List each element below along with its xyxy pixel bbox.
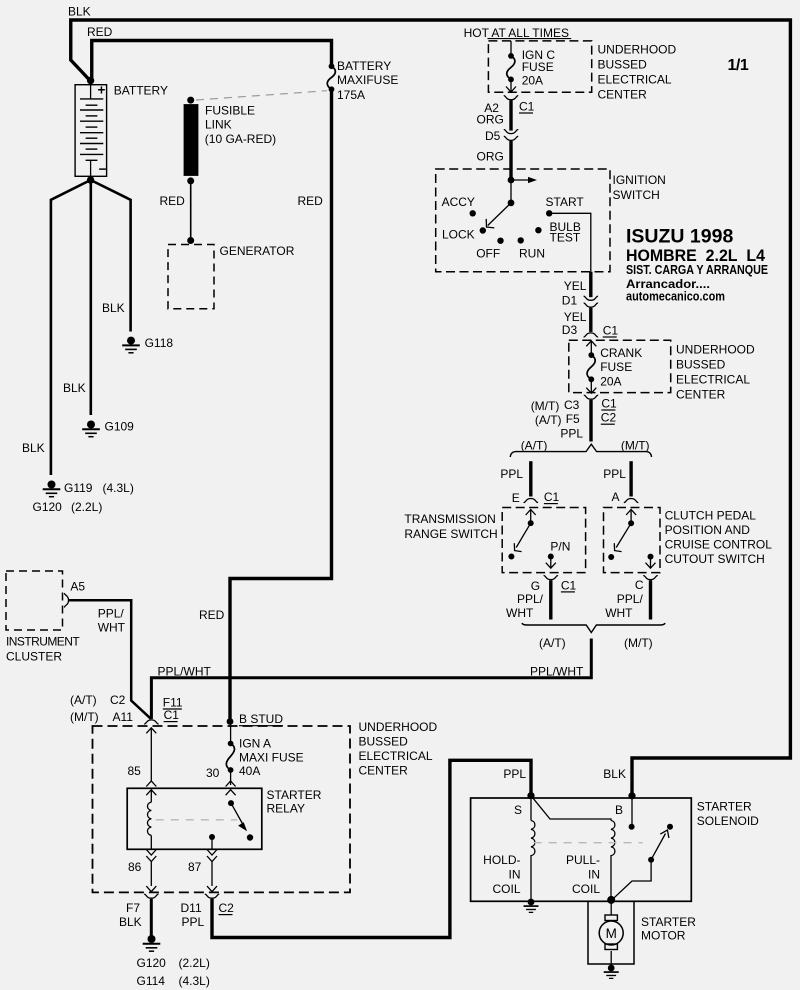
svg-text:175A: 175A (337, 88, 365, 102)
label IGN C FUSE 20A (522, 48, 556, 88)
svg-text:C: C (635, 578, 644, 592)
wire BLK battery negative to G119 (51, 180, 91, 475)
svg-text:OFF: OFF (476, 247, 500, 261)
label ORG (477, 150, 504, 164)
svg-text:PPL/: PPL/ (517, 592, 544, 606)
label CLUTCH PEDAL POSITION AND CRUISE CONTROL CUTOUT SWITCH (665, 509, 773, 567)
label G109 (105, 420, 135, 434)
svg-text:F5: F5 (566, 412, 580, 426)
label D11 PPL (181, 901, 205, 929)
node contact ACCY (470, 210, 476, 216)
wire ignition wiper arm toward LOCK (486, 203, 511, 228)
svg-text:BATTERY: BATTERY (114, 84, 168, 98)
svg-text:HOT AT ALL TIMES: HOT AT ALL TIMES (464, 26, 569, 40)
wire TRS feed with up arrow (526, 510, 536, 524)
label INSTRUMENT CLUSTER (6, 635, 80, 664)
wire BLK relay 86 to ground (150, 899, 153, 936)
label UNDERHOOD BUSSED ELECTRICAL CENTER (598, 43, 677, 102)
label PPL/ WHT (605, 592, 643, 620)
node B STUD (227, 718, 234, 725)
label C2 (219, 901, 235, 915)
svg-text:G: G (531, 579, 540, 593)
motor brush top (605, 915, 617, 921)
node contact LOCK (480, 227, 486, 233)
svg-text:TRANSMISSION: TRANSMISSION (404, 512, 495, 526)
label 87 (188, 860, 202, 874)
svg-text:YEL: YEL (564, 279, 587, 293)
svg-text:STARTER: STARTER (267, 788, 322, 802)
svg-text:85: 85 (128, 764, 142, 778)
label C1 (561, 578, 577, 592)
connector D5 (in-line) (504, 130, 518, 141)
svg-text:POSITION AND: POSITION AND (665, 523, 751, 537)
wire relay pin 85 feed with up arrow (146, 728, 156, 781)
label START (546, 195, 585, 209)
label TRANSMISSION RANGE SWITCH (404, 512, 497, 541)
wire solenoid switch arm (651, 830, 669, 860)
svg-text:STARTER: STARTER (641, 915, 696, 929)
svg-text:D11: D11 (181, 901, 202, 915)
node ignition switch wiper pivot (508, 200, 515, 207)
svg-text:RED: RED (160, 194, 186, 208)
label D1 (562, 294, 578, 308)
title automecanico.com (626, 290, 725, 304)
svg-text:COIL: COIL (492, 882, 520, 896)
svg-text:SIST. CARGA Y ARRANQUE: SIST. CARGA Y ARRANQUE (626, 262, 768, 277)
node battery positive terminal (87, 77, 94, 84)
label A2 (484, 101, 499, 115)
ground G109 (82, 421, 100, 437)
node clutch contact output (648, 554, 654, 560)
svg-text:PPL: PPL (603, 467, 626, 481)
svg-text:BLK: BLK (22, 441, 45, 455)
wire hold-in coil to ground (530, 860, 532, 900)
svg-text:START: START (546, 195, 585, 209)
svg-text:BLK: BLK (102, 301, 125, 315)
label (A/T) (521, 439, 548, 453)
svg-text:HOLD-: HOLD- (483, 853, 520, 867)
svg-text:MOTOR: MOTOR (641, 929, 686, 943)
svg-text:WHT: WHT (506, 606, 534, 620)
svg-text:RUN: RUN (519, 247, 545, 261)
svg-text:+: + (98, 83, 106, 98)
label 86 (128, 860, 142, 874)
node contact START (546, 210, 552, 216)
label BLK (68, 5, 91, 19)
svg-text:SWITCH: SWITCH (613, 188, 660, 202)
svg-text:GENERATOR: GENERATOR (220, 244, 295, 258)
label PPL (560, 427, 583, 441)
svg-text:LINK: LINK (205, 118, 232, 132)
svg-text:FUSE: FUSE (600, 360, 632, 374)
wire crank fuse lead top with arrow (586, 341, 596, 355)
label YEL (564, 310, 587, 324)
svg-text:ORG: ORG (477, 150, 504, 164)
label RED (160, 194, 186, 208)
svg-text:CUTOUT SWITCH: CUTOUT SWITCH (665, 552, 765, 566)
svg-text:(A/T): (A/T) (521, 439, 548, 453)
wire IGN C fuse lead top (510, 41, 512, 55)
label (M/T) C3 (531, 398, 580, 413)
ground G119 (43, 481, 61, 497)
node fusible link bottom (187, 177, 194, 184)
wire pull-in coil feed (531, 796, 611, 821)
svg-text:40A: 40A (239, 764, 260, 778)
label F11 (163, 696, 183, 710)
label RED (199, 608, 225, 622)
node solenoid terminal B (628, 792, 635, 799)
svg-text:(A/T): (A/T) (70, 693, 97, 707)
svg-text:C2: C2 (110, 693, 126, 707)
svg-text:MAXIFUSE: MAXIFUSE (337, 73, 398, 87)
clutch pedal position switch box (dashed) (604, 508, 661, 573)
svg-text:−: − (99, 161, 107, 176)
svg-text:(4.3L): (4.3L) (179, 974, 210, 988)
svg-text:BUSSED: BUSSED (598, 58, 648, 72)
label BLK (603, 767, 626, 781)
wire ORG D5 to ignition switch (509, 141, 512, 180)
wire BLK battery negative to G109 (90, 180, 93, 415)
svg-text:C1: C1 (164, 708, 180, 722)
starter solenoid box (471, 798, 692, 901)
wire B STUD to IGN A fuse (230, 722, 232, 744)
svg-text:F7: F7 (126, 901, 140, 915)
wire PPL crank fuse to split (589, 400, 592, 442)
svg-text:ACCY: ACCY (442, 195, 475, 209)
label PPL/WHT (158, 665, 212, 679)
label G120 (2.2L) (137, 956, 210, 970)
svg-text:G114: G114 (137, 974, 166, 988)
node battery negative terminal (87, 176, 94, 183)
wire PPL to clutch switch (629, 461, 632, 496)
label S (514, 803, 522, 817)
wire relay 87 exit arrows (207, 850, 217, 892)
svg-text:G120: G120 (33, 500, 63, 514)
label (A/T) F5 (535, 412, 580, 427)
label P/N (550, 540, 570, 554)
wire solenoid pivot to motor junction (613, 860, 652, 900)
svg-text:(M/T): (M/T) (531, 399, 560, 413)
fuse BATTERY MAXIFUSE 175A (327, 63, 335, 92)
generator GEN (dashed box) (168, 245, 214, 309)
wire motor to ground (610, 951, 612, 965)
svg-text:(4.3L): (4.3L) (103, 481, 134, 495)
wire hold-in coil feed (530, 796, 532, 821)
svg-text:20A: 20A (522, 74, 543, 88)
wire relay 86 exit arrows (146, 850, 156, 892)
svg-text:CENTER: CENTER (359, 764, 409, 778)
wire RED battery positive feed to maxifuse (92, 41, 332, 79)
label (A/T) (M/T) (70, 693, 99, 724)
label D3 (562, 323, 578, 337)
svg-text:M: M (606, 926, 617, 941)
svg-text:BLK: BLK (119, 915, 142, 929)
svg-text:UNDERHOOD: UNDERHOOD (359, 720, 438, 734)
label BATTERY MAXIFUSE 175A (337, 59, 398, 102)
svg-text:PPL: PPL (560, 427, 583, 441)
starter motor M (599, 921, 623, 945)
label C2 A11 (110, 693, 133, 724)
label STARTER MOTOR (641, 915, 696, 943)
label PPL (503, 767, 526, 781)
label STARTER RELAY (267, 788, 322, 816)
node TRS common (528, 520, 534, 526)
svg-text:PULL-: PULL- (566, 853, 600, 867)
title Arrancador.... (626, 277, 710, 291)
svg-text:MAXI FUSE: MAXI FUSE (239, 751, 304, 765)
svg-text:C1: C1 (544, 490, 560, 504)
svg-text:SOLENOID: SOLENOID (697, 814, 759, 828)
label C1 (519, 100, 535, 114)
svg-text:ELECTRICAL: ELECTRICAL (359, 749, 433, 763)
fusible link F1 (10 GA-RED) (184, 104, 199, 176)
svg-text:CLUSTER: CLUSTER (6, 650, 62, 664)
label UNDERHOOD BUSSED ELECTRICAL CENTER (676, 343, 755, 402)
solenoid hold-in coil (531, 821, 535, 860)
svg-text:30: 30 (206, 766, 220, 780)
svg-text:BLK: BLK (63, 381, 86, 395)
relay coil (147, 802, 151, 835)
svg-text:IN: IN (509, 868, 521, 882)
connector pin A5 (half) (65, 593, 69, 607)
wire crank fuse lead bottom with arrow (586, 379, 596, 393)
ground G118 (122, 337, 140, 353)
svg-text:(M/T): (M/T) (70, 710, 99, 724)
label STARTER SOLENOID (697, 800, 759, 829)
svg-text:COIL: COIL (572, 882, 600, 896)
wire pull-in coil to junction (610, 860, 612, 900)
svg-text:PPL: PPL (182, 915, 205, 929)
svg-text:BUSSED: BUSSED (359, 735, 409, 749)
svg-text:LOCK: LOCK (442, 228, 475, 242)
label ORG (477, 113, 504, 127)
connector F11 C1 (half, at UBEC top) (144, 720, 158, 724)
label RUN (519, 247, 545, 261)
svg-text:PPL/: PPL/ (98, 607, 125, 621)
label RED (87, 25, 113, 39)
wire PPL/WHT from clutch (649, 580, 652, 619)
connector pin C (half) (643, 576, 657, 580)
svg-text:YEL: YEL (564, 310, 587, 324)
node clutch contact lower left (608, 554, 614, 560)
svg-text:C3: C3 (564, 398, 580, 412)
brace wire merge (522, 623, 665, 633)
wire clutch output down with arrow (646, 557, 656, 569)
label BLK (22, 441, 45, 455)
title HOMBRE 2.2L L4 (626, 246, 766, 265)
svg-text:automecanico.com: automecanico.com (626, 290, 725, 304)
svg-text:20A: 20A (600, 375, 621, 389)
svg-text:IGN A: IGN A (239, 737, 271, 751)
label F7 BLK (119, 901, 142, 929)
svg-text:BUSSED: BUSSED (676, 358, 726, 372)
label RED (298, 194, 324, 208)
label (A/T) (539, 636, 566, 650)
svg-text:(M/T): (M/T) (624, 636, 653, 650)
wire ignition junction to wiper pivot (510, 180, 512, 203)
label PPL/ WHT (506, 592, 544, 620)
svg-text:(A/T): (A/T) (535, 413, 562, 427)
svg-text:IGNITION: IGNITION (613, 173, 666, 187)
svg-text:CENTER: CENTER (676, 388, 726, 402)
label A (612, 490, 620, 504)
wire relay 87 to box edge (211, 837, 213, 849)
svg-text:BLK: BLK (603, 767, 626, 781)
label C1 (544, 490, 560, 504)
starter motor box (588, 901, 634, 964)
label D5 (485, 129, 501, 143)
label G118 (145, 336, 174, 350)
solenoid pull-in coil (611, 821, 615, 860)
node relay contact (open end) (247, 834, 253, 840)
label G119 (4.3L) (64, 481, 134, 495)
fuse IGN C FUSE 20A (507, 53, 515, 82)
svg-text:P/N: P/N (550, 540, 570, 554)
label C1 (603, 324, 619, 338)
svg-text:C1: C1 (519, 100, 535, 114)
svg-text:TEST: TEST (550, 231, 581, 245)
connector below crank fuse (half) (584, 395, 598, 399)
svg-text:ORG: ORG (477, 113, 504, 127)
instrument cluster box (dashed) (6, 571, 63, 630)
connector pin A (half) (624, 499, 638, 503)
label (M/T) (624, 636, 653, 650)
motor brush bottom (605, 944, 617, 950)
connector C1 pin A2 (half, below box) (504, 96, 518, 100)
relay actuation dashed link (156, 819, 238, 821)
svg-text:G119: G119 (64, 481, 93, 495)
svg-text:1/1: 1/1 (728, 57, 749, 74)
svg-text:D3: D3 (562, 323, 578, 337)
wire ORG C1 to D5 (509, 100, 512, 130)
label BLK (63, 381, 86, 395)
label PULL- IN COIL (566, 853, 600, 896)
node ignition switch feed junction (508, 177, 515, 184)
node solenoid motor junction (607, 896, 615, 904)
svg-text:G109: G109 (105, 420, 135, 434)
wire PPL to transmission range switch (529, 461, 532, 496)
title ISUZU 1998 (626, 226, 733, 248)
svg-text:PPL: PPL (500, 467, 523, 481)
ignition switch box (dashed) (436, 169, 610, 272)
svg-text:CRANK: CRANK (600, 346, 642, 360)
label 85 (128, 764, 142, 778)
label BATTERY (114, 84, 168, 98)
label OFF (476, 247, 500, 261)
label HOLD- IN COIL (483, 853, 521, 896)
connector C2 pin D11 (half, below UBEC) (205, 894, 219, 898)
connector C1 pin G (half) (544, 576, 558, 580)
solenoid actuation dashed link (534, 842, 643, 844)
label E (512, 491, 520, 505)
svg-text:UNDERHOOD: UNDERHOOD (598, 43, 677, 57)
node TRS contact P/N (548, 554, 554, 560)
svg-text:WHT: WHT (98, 621, 126, 635)
relay switch arm (normally open) (231, 803, 247, 831)
wire YEL D1 to D3 (589, 308, 592, 332)
svg-text:PPL/WHT: PPL/WHT (158, 665, 212, 679)
svg-text:S: S (514, 803, 522, 817)
ground starter motor (604, 965, 619, 979)
ground G120/G114 (143, 935, 161, 951)
underhood bussed electrical center box (CRANK fuse, dashed) (569, 340, 671, 392)
wire RED maxifuse down to B STUD (230, 92, 332, 720)
wire BLK battery negative feed (top border path to starter solenoid B) (71, 20, 791, 793)
label ACCY (442, 195, 475, 209)
svg-text:CRUISE CONTROL: CRUISE CONTROL (665, 538, 773, 552)
wire PPL/WHT instrument cluster to F11 C1 (69, 600, 151, 719)
fuse IGN A MAXI FUSE 40A (226, 741, 234, 773)
label CRANK FUSE 20A (600, 346, 642, 389)
wire IGN C fuse lead bottom with arrow (506, 79, 516, 92)
node contact RUN (518, 237, 524, 243)
svg-text:FUSIBLE: FUSIBLE (205, 104, 255, 118)
wire IGN A fuse to relay pin 30 (226, 770, 236, 795)
brace wire split (510, 444, 651, 457)
label 30 (206, 766, 220, 780)
svg-text:G120: G120 (137, 956, 167, 970)
label G114 (4.3L) (137, 974, 210, 988)
wire clutch wiper arm (614, 523, 631, 551)
node TRS contact lower left (508, 554, 514, 560)
svg-text:B: B (615, 803, 623, 817)
label C1 (164, 708, 180, 722)
wire PPL/WHT from TRS (549, 580, 552, 619)
svg-text:ELECTRICAL: ELECTRICAL (598, 73, 672, 87)
svg-text:PPL: PPL (503, 767, 526, 781)
label IGN A MAXI FUSE 40A (239, 737, 304, 779)
svg-text:A: A (612, 490, 620, 504)
svg-text:IN: IN (588, 868, 600, 882)
label B (615, 803, 623, 817)
svg-text:UNDERHOOD: UNDERHOOD (676, 343, 755, 357)
label 1/1 (728, 57, 749, 74)
label G (531, 579, 540, 593)
node contact OFF (497, 238, 503, 244)
svg-text:G118: G118 (145, 336, 174, 350)
wire dashed link fusible link to maxifuse (196, 91, 327, 100)
label PPL (603, 467, 626, 481)
svg-text:C1: C1 (561, 578, 577, 592)
label FUSIBLE LINK (10 GA-RED) (205, 104, 276, 147)
svg-text:D5: D5 (485, 129, 501, 143)
node fusible link top (187, 97, 194, 104)
label B STUD (239, 712, 283, 726)
svg-text:C1: C1 (603, 324, 619, 338)
svg-text:PPL/: PPL/ (617, 592, 644, 606)
label LOCK (442, 228, 475, 242)
svg-text:RED: RED (298, 194, 324, 208)
label PPL/WHT (530, 665, 584, 679)
svg-text:BATTERY: BATTERY (337, 59, 391, 73)
node solenoid arm pivot (648, 857, 654, 863)
label G120 (2.2L) (33, 500, 103, 514)
battery B1 (75, 83, 107, 177)
label IGNITION SWITCH (613, 173, 666, 202)
svg-text:C2: C2 (601, 411, 617, 425)
label (M/T) (621, 439, 650, 453)
svg-text:RED: RED (87, 25, 113, 39)
node solenoid terminal S (527, 792, 534, 799)
wire BLK battery negative to G118 (91, 180, 131, 332)
wire TRS wiper arm (514, 523, 530, 552)
label A5 (70, 580, 85, 594)
svg-text:(2.2L): (2.2L) (179, 956, 210, 970)
wire relay 85 entering with up arrow (146, 781, 156, 802)
label PPL (500, 467, 523, 481)
svg-text:RANGE SWITCH: RANGE SWITCH (404, 527, 497, 541)
svg-text:CLUTCH PEDAL: CLUTCH PEDAL (665, 509, 757, 523)
